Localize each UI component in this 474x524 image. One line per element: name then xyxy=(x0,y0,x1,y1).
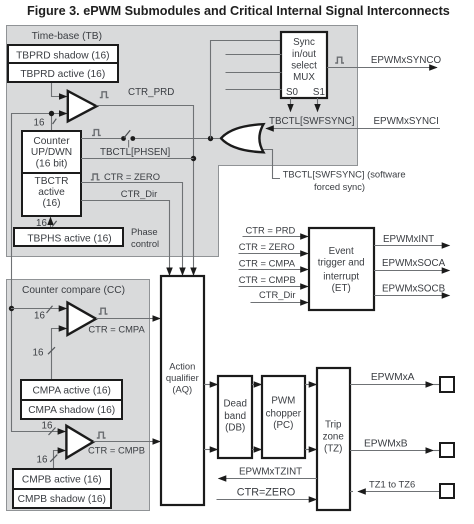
wire: left TBCTR bus vertical xyxy=(11,114,13,432)
wire: bus drop into counter top xyxy=(51,114,53,132)
svg-text:S0: S0 xyxy=(286,87,299,98)
TZ pin square xyxy=(440,484,454,498)
OR gate (sync combine, mirrored) xyxy=(221,124,264,152)
pulse symbol CMPB xyxy=(97,432,106,438)
wire: CTR = CMPA to AQ xyxy=(96,318,160,320)
svg-text:zone: zone xyxy=(323,432,345,443)
svg-text:Figure 3. ePWM Submodules and: Figure 3. ePWM Submodules and Critical I… xyxy=(27,4,450,18)
CMPB shadow register box xyxy=(13,489,111,508)
svg-text:EPWMxB: EPWMxB xyxy=(364,439,408,450)
time-base (TB) shaded region xyxy=(7,26,358,257)
bus width slash 16 (CMPB top) xyxy=(49,428,56,436)
CMPA comparator triangle xyxy=(68,303,97,335)
bus width slash 16 (CMPB bottom) xyxy=(50,455,57,462)
svg-text:16: 16 xyxy=(34,311,45,322)
svg-text:(ET): (ET) xyxy=(332,283,351,294)
action qualifier (AQ) box xyxy=(161,276,204,505)
TB period comparator triangle xyxy=(68,91,97,121)
svg-text:CMPA active (16): CMPA active (16) xyxy=(32,385,111,396)
wire: bus to CMPA comparator top input xyxy=(11,308,58,310)
svg-text:TBCTR: TBCTR xyxy=(35,176,69,187)
wire: counter sync line to switch xyxy=(81,138,121,140)
CMPB active register box xyxy=(13,469,111,489)
pulse symbol at MUX output xyxy=(335,57,344,63)
phase switch (TBCTL[PHSEN]) xyxy=(121,136,126,141)
CMPA shadow register box xyxy=(21,400,122,419)
svg-text:EPWMxSYNCI: EPWMxSYNCI xyxy=(374,116,439,127)
svg-text:CMPA shadow (16): CMPA shadow (16) xyxy=(28,405,115,416)
svg-text:band: band xyxy=(224,411,246,422)
svg-text:MUX: MUX xyxy=(293,72,315,83)
svg-text:qualifier: qualifier xyxy=(166,372,199,383)
svg-text:trigger and: trigger and xyxy=(318,258,365,269)
svg-text:Time-base (TB): Time-base (TB) xyxy=(32,31,102,42)
sync in/out select MUX box xyxy=(281,32,327,98)
svg-text:EPWMxSOCB: EPWMxSOCB xyxy=(382,283,446,294)
svg-text:forced sync): forced sync) xyxy=(314,181,365,192)
svg-text:16: 16 xyxy=(37,455,48,466)
wire: software forced sync into OR gate xyxy=(263,150,281,179)
svg-text:CTR_Dir: CTR_Dir xyxy=(121,188,157,199)
svg-text:interrupt: interrupt xyxy=(323,271,359,282)
wire: counter output to CTR_PRD vertical xyxy=(81,158,194,160)
wire: TBPHS to counter bottom xyxy=(50,217,52,228)
bus width slash 16 (CMPA bottom) xyxy=(48,347,55,354)
EPWMxA pin square xyxy=(440,377,454,392)
svg-text:EPWMxSOCA: EPWMxSOCA xyxy=(382,258,446,269)
wire: CTR_Dir to AQ xyxy=(81,201,170,276)
svg-text:(PC): (PC) xyxy=(273,420,293,431)
svg-text:CMPB shadow (16): CMPB shadow (16) xyxy=(18,494,106,505)
svg-text:chopper: chopper xyxy=(266,408,302,419)
bus width slash 16 (TBPHS) xyxy=(52,221,56,227)
junction dot on bus xyxy=(49,111,54,116)
svg-text:(AQ): (AQ) xyxy=(172,384,192,395)
MUX input stub 3 xyxy=(226,72,282,74)
wire: PC to TZ (lower) xyxy=(305,449,317,451)
svg-text:TBCTL[SWFSYNC] (software: TBCTL[SWFSYNC] (software xyxy=(283,168,406,179)
wire: S0 select down arrow xyxy=(290,98,292,112)
dead band (DB) box xyxy=(218,376,252,458)
wire: CTR = ZERO to AQ xyxy=(81,183,183,276)
bus width slash 16 (CMPA top) xyxy=(47,306,53,313)
TBPRD shadow register box xyxy=(8,45,118,63)
EPWMxB pin square xyxy=(440,443,454,457)
svg-text:CTR_PRD: CTR_PRD xyxy=(128,87,174,98)
svg-text:TBCTL[PHSEN]: TBCTL[PHSEN] xyxy=(100,147,171,158)
svg-text:CTR = PRD: CTR = PRD xyxy=(246,225,296,236)
svg-text:Event: Event xyxy=(329,246,354,257)
svg-text:CTR = CMPB: CTR = CMPB xyxy=(88,445,145,456)
wire: EPWMxSYNCI into OR gate xyxy=(266,128,440,130)
svg-text:EPWMxA: EPWMxA xyxy=(371,372,415,383)
svg-text:EPWMxSYNCO: EPWMxSYNCO xyxy=(371,55,442,66)
svg-text:Trip: Trip xyxy=(325,420,342,431)
bus width slash 16 (counter top) xyxy=(53,119,57,124)
wire: AQ to DB (upper) xyxy=(204,384,218,386)
PWM chopper (PC) box xyxy=(262,376,305,458)
wire: bus to CMPB comparator top input xyxy=(11,431,57,433)
svg-text:EPWMxINT: EPWMxINT xyxy=(383,234,434,245)
svg-text:(16 bit): (16 bit) xyxy=(36,158,68,169)
svg-text:CTR = CMPB: CTR = CMPB xyxy=(239,274,296,285)
svg-text:Sync: Sync xyxy=(293,37,315,48)
svg-text:TBCTL[SWFSYNC]: TBCTL[SWFSYNC] xyxy=(269,116,355,127)
svg-text:Counter: Counter xyxy=(33,136,70,147)
pulse symbol near phase switch xyxy=(92,130,101,136)
svg-text:(16): (16) xyxy=(42,198,60,209)
wire: CTR = CMPB to AQ xyxy=(93,441,160,443)
svg-text:CTR = ZERO: CTR = ZERO xyxy=(104,171,160,182)
event trigger and interrupt (ET) box xyxy=(309,228,374,310)
counter compare (CC) shaded region xyxy=(7,280,150,511)
junction dot on sync line xyxy=(208,136,213,141)
svg-text:control: control xyxy=(131,238,159,249)
svg-text:UP/DWN: UP/DWN xyxy=(31,147,72,158)
svg-text:TBPRD shadow (16): TBPRD shadow (16) xyxy=(16,51,109,62)
wire: EPWMxSYNCO output xyxy=(327,67,437,69)
svg-text:active: active xyxy=(38,187,65,198)
wire: PC to TZ (upper) xyxy=(305,384,317,386)
svg-text:Dead: Dead xyxy=(223,398,246,409)
CMPB comparator triangle xyxy=(66,426,93,458)
svg-text:EPWMxTZINT: EPWMxTZINT xyxy=(239,467,302,478)
wire: DB to PC (lower) xyxy=(252,449,262,451)
svg-text:(TZ): (TZ) xyxy=(324,443,343,454)
wire: CMPA active up to comparator bottom input xyxy=(52,329,59,381)
svg-text:CTR = CMPA: CTR = CMPA xyxy=(88,324,145,335)
svg-text:16: 16 xyxy=(33,348,44,359)
trip zone (TZ) box xyxy=(317,368,350,510)
junction dot on left bus (CMPA) xyxy=(9,306,14,311)
wire: TBPRD active to comparator top input xyxy=(52,82,59,97)
pulse symbol CMPA xyxy=(99,308,108,314)
svg-text:Phase: Phase xyxy=(131,226,158,237)
TBPRD active register box xyxy=(8,63,118,82)
CMPA active register box xyxy=(21,380,122,400)
svg-text:16: 16 xyxy=(34,118,45,129)
wire: switch to OR gate output node xyxy=(135,138,220,140)
svg-text:in/out: in/out xyxy=(292,49,316,60)
svg-text:Action: Action xyxy=(169,360,195,371)
svg-text:(DB): (DB) xyxy=(225,423,245,434)
pulse symbol CTR = ZERO xyxy=(91,174,100,180)
svg-text:TBPRD active (16): TBPRD active (16) xyxy=(20,69,105,80)
svg-text:TZ1 to TZ6: TZ1 to TZ6 xyxy=(369,479,415,490)
svg-text:TBPHS active (16): TBPHS active (16) xyxy=(27,233,111,244)
svg-text:Counter compare (CC): Counter compare (CC) xyxy=(22,285,125,296)
wire: TBCTR bus horizontal into comparator bottom input xyxy=(11,113,58,115)
svg-text:CTR = ZERO: CTR = ZERO xyxy=(239,241,295,252)
TBPHS active register box xyxy=(14,228,123,246)
wire: CTR_PRD from comparator right and down to AQ xyxy=(97,106,194,160)
svg-text:CTR = CMPA: CTR = CMPA xyxy=(239,258,296,269)
svg-text:select: select xyxy=(291,60,317,71)
svg-text:CTR=ZERO: CTR=ZERO xyxy=(237,487,295,499)
svg-text:S1: S1 xyxy=(313,87,325,98)
wire: S1 select down arrow xyxy=(317,98,319,112)
wire: sync line up to MUX input 1 xyxy=(211,41,282,139)
svg-text:16: 16 xyxy=(42,421,53,432)
wire: CMPB active up to comparator bottom input xyxy=(54,451,59,470)
counter box (Counter UP/DWN + TBCTR active) xyxy=(22,131,81,216)
junction dot CTR_PRD/counter line xyxy=(191,156,196,161)
pulse symbol at comparator output xyxy=(100,92,109,98)
svg-text:CMPB active (16): CMPB active (16) xyxy=(22,475,102,486)
MUX input stub 2 xyxy=(226,54,282,56)
MUX input stub 4 xyxy=(226,89,282,91)
svg-text:CTR_Dir: CTR_Dir xyxy=(259,289,295,300)
wire: DB to PC (upper) xyxy=(252,384,262,386)
wire: AQ to DB (lower) xyxy=(204,449,218,451)
svg-text:PWM: PWM xyxy=(271,395,295,406)
